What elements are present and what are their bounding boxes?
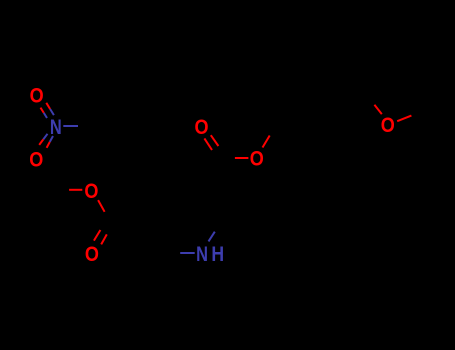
wire: N1 to ring C2 (blue half): [209, 232, 215, 242]
wire: nitro N to phenyl ring (blue half): [63, 125, 78, 127]
wire: ester O to CH2 (red half): [263, 136, 270, 148]
svg-text:N: N: [50, 116, 62, 140]
wire: CH2 to ether O (red half): [374, 105, 381, 114]
wire: ether O to CH3 (red half): [397, 116, 411, 122]
svg-text:O: O: [30, 84, 44, 108]
top ester C=O double bond (red halves): [204, 135, 218, 150]
svg-text:N: N: [196, 243, 208, 267]
wire: methyl CH3 to left ester O (red half): [69, 189, 82, 191]
svg-text:H: H: [211, 242, 224, 266]
nitro group N=O double bond (upper): [41, 103, 54, 118]
svg-text:O: O: [84, 179, 98, 203]
wire: ring C6 to N1 (blue half): [180, 252, 195, 254]
svg-text:O: O: [194, 116, 208, 140]
svg-text:O: O: [250, 147, 264, 171]
svg-text:O: O: [381, 113, 395, 137]
left ester C=O double bond (red halves): [94, 230, 107, 244]
wire: carbonyl C to ester O (red half): [235, 157, 249, 159]
nitro group N-O double bond (lower): [39, 134, 53, 148]
wire: left ester O to carbonyl C (red half): [98, 200, 105, 212]
svg-text:O: O: [29, 148, 43, 172]
svg-text:O: O: [85, 243, 99, 267]
